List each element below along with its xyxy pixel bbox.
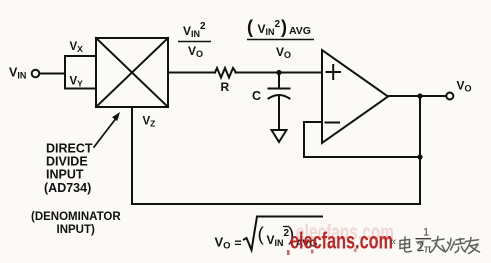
svg-text:AVG: AVG — [289, 25, 311, 37]
svg-text:π: π — [424, 244, 432, 256]
svg-text:INPUT: INPUT — [46, 168, 84, 182]
svg-text:«: « — [390, 236, 396, 248]
svg-text:(: ( — [247, 17, 253, 37]
svg-text:DIRECT: DIRECT — [46, 142, 93, 156]
svg-text:=: = — [235, 236, 242, 250]
svg-text:elecfans.com: elecfans.com — [290, 228, 393, 254]
svg-text:INPUT): INPUT) — [57, 224, 96, 236]
svg-text:(DENOMINATOR: (DENOMINATOR — [31, 211, 121, 223]
svg-text:): ) — [281, 17, 287, 37]
svg-text:(AD734): (AD734) — [44, 181, 91, 195]
svg-text:R: R — [221, 80, 230, 94]
svg-text:(: ( — [258, 225, 265, 246]
svg-text:DIVIDE: DIVIDE — [46, 155, 88, 169]
svg-text:C: C — [252, 89, 261, 103]
svg-text:1: 1 — [423, 227, 429, 239]
